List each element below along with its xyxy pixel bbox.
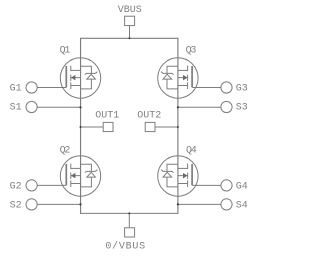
svg-text:0/VBUS: 0/VBUS [105,241,146,253]
svg-text:VBUS: VBUS [118,5,142,16]
svg-text:OUT1: OUT1 [95,111,119,122]
svg-text:G4: G4 [236,182,248,193]
svg-text:G2: G2 [10,182,22,193]
svg-text:Q3: Q3 [186,45,197,56]
svg-text:S2: S2 [10,201,22,212]
svg-text:S1: S1 [10,103,22,114]
svg-text:G3: G3 [236,84,248,95]
svg-text:G1: G1 [10,84,22,95]
svg-text:Q1: Q1 [60,45,71,56]
svg-text:Q4: Q4 [186,145,197,156]
svg-text:S4: S4 [236,201,248,212]
svg-text:S3: S3 [236,103,248,114]
svg-text:Q2: Q2 [60,145,71,156]
svg-text:OUT2: OUT2 [137,111,161,122]
